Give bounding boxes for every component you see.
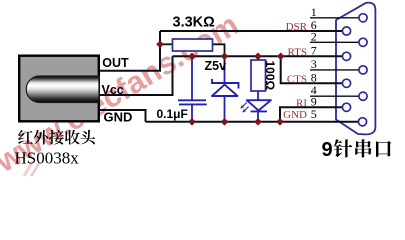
svg-text:CTS: CTS (287, 73, 307, 85)
svg-text:Z5v: Z5v (205, 59, 227, 73)
svg-text:DSR: DSR (286, 21, 308, 33)
svg-text:RI: RI (296, 97, 307, 109)
svg-text:9: 9 (311, 94, 317, 108)
svg-text:5: 5 (311, 107, 317, 121)
svg-text:Vcc: Vcc (102, 83, 124, 97)
svg-text:3: 3 (311, 57, 317, 71)
svg-text:7: 7 (311, 43, 317, 57)
svg-text:1: 1 (311, 5, 317, 19)
svg-text:0.1μF: 0.1μF (157, 107, 188, 121)
svg-text:100Ω: 100Ω (263, 61, 277, 91)
svg-text:2: 2 (311, 29, 317, 43)
svg-text:RTS: RTS (287, 46, 307, 58)
svg-text:GND: GND (283, 109, 307, 121)
svg-text:HS0038x: HS0038x (15, 149, 80, 168)
svg-text:GND: GND (104, 109, 133, 124)
svg-text:9: 9 (322, 139, 333, 161)
svg-text:OUT: OUT (102, 56, 129, 70)
svg-text:3.3KΩ: 3.3KΩ (173, 15, 216, 31)
svg-text:8: 8 (311, 70, 317, 84)
